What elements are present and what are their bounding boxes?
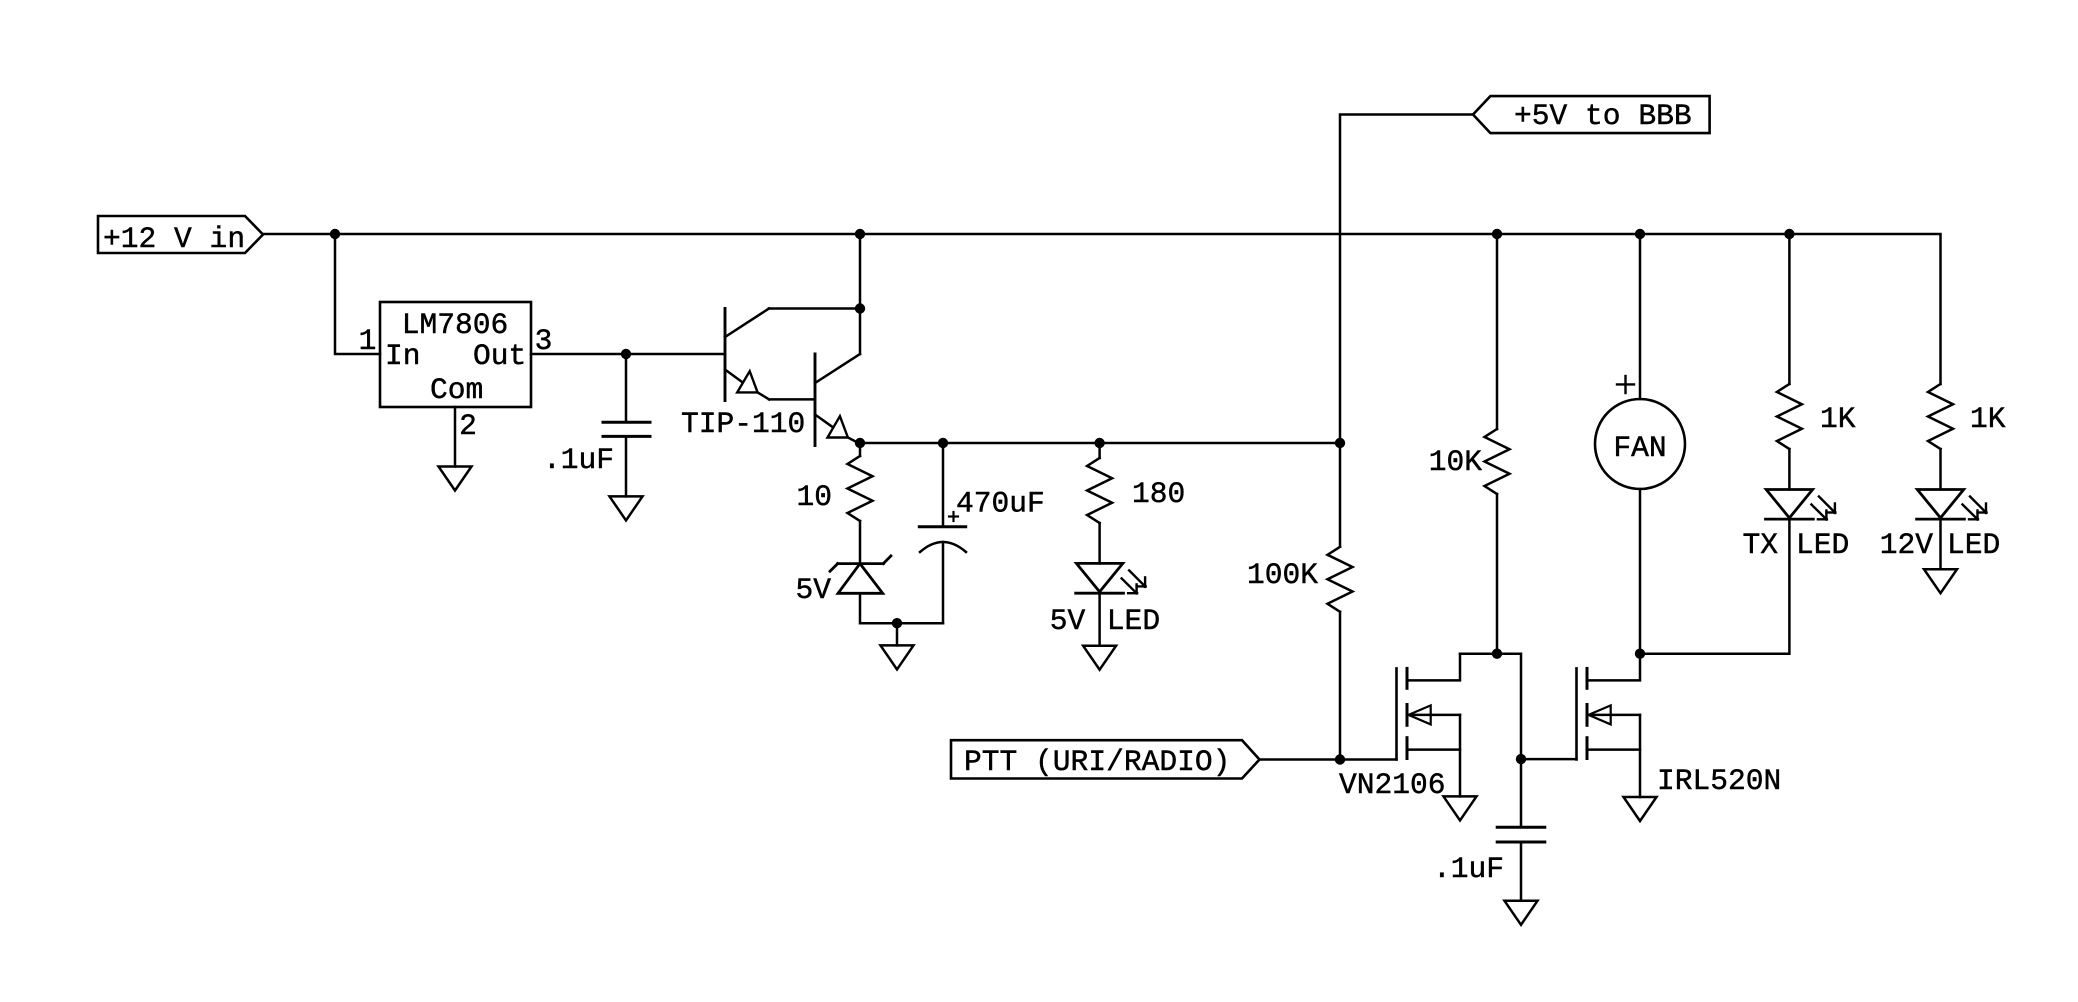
- resistor R3 100K: [1328, 547, 1353, 612]
- wire resistor R1 to zener: [859, 521, 862, 564]
- svg-text:+12 V in: +12 V in: [103, 222, 245, 256]
- svg-text:5V: 5V: [795, 573, 831, 607]
- wire rail to LM7806 In: [335, 234, 380, 354]
- LED D4 12V LED: [1880, 490, 2001, 563]
- wire emitter to resistor R1: [859, 443, 862, 456]
- svg-text:Out: Out: [473, 339, 526, 373]
- node junction collector: [855, 303, 865, 313]
- svg-text:12V: 12V: [1880, 528, 1934, 562]
- node junction rail-TIP110 collector: [855, 229, 865, 239]
- wire LM7806 Com to ground: [454, 407, 457, 467]
- wire emitter rail 6V node: [860, 442, 1340, 445]
- wire LM7806 Out: [531, 353, 725, 356]
- wire 180 to LED D2: [1098, 523, 1101, 563]
- svg-text:.1uF: .1uF: [1433, 852, 1504, 886]
- wire ground stub: [896, 623, 899, 645]
- capacitor C2 470uF: [919, 487, 1044, 553]
- resistor R6 1K: [1928, 384, 1953, 449]
- wire drain to TX LED: [1640, 519, 1789, 654]
- wire 180 top lead: [1098, 443, 1101, 458]
- node junction VN2106 drain: [1492, 649, 1502, 659]
- node junction rail-10K: [1492, 229, 1502, 239]
- regulator U1 LM7806: [380, 302, 531, 407]
- wire cap C3 top lead: [1520, 759, 1523, 826]
- svg-text:180: 180: [1132, 477, 1185, 511]
- LED D2 5V LED: [1050, 563, 1160, 638]
- net flag PTT (URI/RADIO): [951, 740, 1260, 779]
- node junction ground stub: [892, 618, 902, 628]
- wire LED D4 to ground: [1939, 519, 1942, 569]
- transistor Q2 VN2106: [1339, 654, 1460, 802]
- svg-text:1: 1: [359, 324, 377, 358]
- svg-text:1K: 1K: [1820, 402, 1856, 436]
- wire rail to collector: [859, 234, 862, 309]
- svg-text:.1uF: .1uF: [543, 443, 614, 477]
- node junction 100K top: [1335, 438, 1345, 448]
- resistor R4 10K: [1485, 429, 1510, 494]
- node junction emitter: [855, 438, 865, 448]
- ground zener/470uF: [881, 645, 914, 669]
- svg-text:10K: 10K: [1429, 445, 1483, 479]
- wire +12V rail: [263, 234, 1941, 384]
- svg-text:LED: LED: [1107, 604, 1160, 638]
- node junction rail-LM7806: [330, 229, 340, 239]
- ground VN2106 source: [1444, 796, 1477, 820]
- wire FAN top lead: [1639, 234, 1642, 399]
- svg-text:LED: LED: [1947, 528, 2000, 562]
- wire TXLED 1K top lead: [1788, 234, 1791, 384]
- wire 10K bottom lead: [1496, 494, 1499, 654]
- ground LM7806 Com: [439, 467, 472, 491]
- wire +5V flag to PTT node: [1340, 115, 1473, 547]
- node junction rail-TXLED: [1784, 229, 1794, 239]
- svg-text:TX: TX: [1742, 528, 1778, 562]
- node junction 470uF top: [938, 438, 948, 448]
- svg-text:In: In: [385, 339, 421, 373]
- capacitor C1 .1uF: [543, 422, 650, 477]
- resistor R2 180: [1087, 458, 1112, 523]
- node junction IRL520N drain: [1635, 649, 1645, 659]
- motor M1 FAN: [1595, 376, 1685, 489]
- wire 470uF bottom lead: [942, 542, 945, 623]
- svg-text:PTT (URI/RADIO): PTT (URI/RADIO): [964, 745, 1230, 779]
- svg-text:2: 2: [459, 409, 477, 443]
- node junction 180 top: [1094, 438, 1104, 448]
- ground LED D4: [1924, 569, 1957, 593]
- svg-text:LM7806: LM7806: [402, 308, 509, 342]
- svg-text:IRL520N: IRL520N: [1657, 764, 1781, 798]
- ground capacitor C3: [1505, 901, 1538, 925]
- transistor Q3 IRL520N: [1577, 654, 1782, 798]
- svg-text:LED: LED: [1796, 528, 1849, 562]
- svg-text:5V: 5V: [1050, 604, 1086, 638]
- wire 470uF top lead: [942, 443, 945, 525]
- resistor R5 1K: [1777, 384, 1802, 449]
- net flag +5V to BBB: [1473, 96, 1710, 133]
- wire junction to capacitor C1: [625, 354, 628, 421]
- ground LED D2: [1083, 646, 1116, 670]
- diode D1 zener 5V: [795, 556, 890, 607]
- svg-text:Com: Com: [430, 373, 483, 407]
- node junction Out-.1uF: [621, 349, 631, 359]
- node junction rail-FAN: [1635, 229, 1645, 239]
- svg-text:470uF: 470uF: [956, 487, 1045, 521]
- capacitor C3 .1uF: [1433, 827, 1545, 886]
- wire zener to ground node: [860, 593, 943, 623]
- ground IRL520N source: [1624, 797, 1657, 821]
- node junction PTT-100K: [1335, 754, 1345, 764]
- wire cap C3 to ground: [1520, 843, 1523, 901]
- ground capacitor C1: [610, 496, 643, 520]
- net flag +12 V in: [98, 216, 263, 256]
- wire R5 to LED D3: [1788, 449, 1791, 490]
- wire to IRL520N gate: [1521, 758, 1577, 761]
- svg-text:VN2106: VN2106: [1339, 768, 1446, 802]
- wire 100K to PTT junction: [1339, 612, 1342, 760]
- wire capacitor C1 to ground: [625, 438, 628, 497]
- wire LED D2 to ground: [1098, 593, 1101, 646]
- LED D3 TX LED: [1742, 490, 1849, 563]
- wire PTT to VN2106 gate: [1260, 758, 1397, 761]
- wire FAN bottom lead: [1639, 489, 1642, 654]
- node junction gate/cap: [1516, 754, 1526, 764]
- resistor R1 10: [848, 456, 873, 521]
- svg-text:+5V to BBB: +5V to BBB: [1514, 99, 1692, 133]
- svg-text:TIP-110: TIP-110: [681, 407, 805, 441]
- svg-text:100K: 100K: [1247, 558, 1318, 592]
- svg-text:10: 10: [796, 480, 832, 514]
- wire drain junction to cap node: [1460, 654, 1521, 759]
- wire 10K top lead: [1496, 234, 1499, 429]
- transistor Q1 TIP-110: [681, 309, 860, 446]
- svg-text:1K: 1K: [1970, 402, 2006, 436]
- svg-text:FAN: FAN: [1613, 431, 1666, 465]
- wire R6 to LED D4: [1939, 449, 1942, 490]
